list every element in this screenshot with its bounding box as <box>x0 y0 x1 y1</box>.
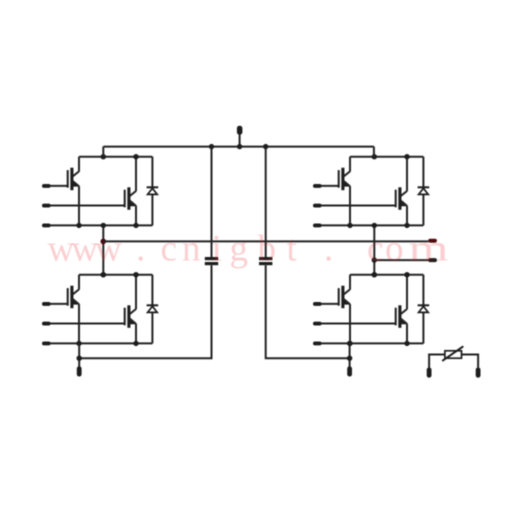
node DC+/pin junction <box>237 144 242 149</box>
IGBT half-bridge block U4 (bottom-right) <box>313 272 429 346</box>
node U2 emitter rail tap <box>372 223 377 228</box>
capacitor C1 top wire <box>211 147 213 257</box>
DC- left terminal pin <box>77 366 82 376</box>
thermistor right pin <box>476 368 481 378</box>
capacitor C2 <box>259 257 272 265</box>
DC- right terminal pin <box>347 366 352 376</box>
thermistor RT leads <box>429 355 478 368</box>
IGBT half-bridge block U3 (bottom-left) <box>42 272 158 346</box>
node DC- left / C1 junction <box>77 356 82 361</box>
AC2 terminal pin <box>428 258 437 262</box>
thermistor left pin <box>427 368 432 378</box>
AC2 output wire <box>374 259 428 261</box>
node U4 collector rail tap <box>372 272 377 277</box>
capacitor C2 bottom wire <box>266 265 350 358</box>
IGBT half-bridge block U1 (top-left) <box>42 154 158 228</box>
node DC+/C2 junction <box>263 144 268 149</box>
node AC2 tap <box>372 257 377 262</box>
jog DC+ to U2 collector rail <box>373 147 375 157</box>
phase-right vertical (U2 emitter to U4 collector) <box>373 225 375 274</box>
AC1 output rail <box>103 240 428 242</box>
thermistor RT slash <box>442 346 463 361</box>
node U3 collector rail tap <box>101 272 106 277</box>
capacitor C2 top wire <box>265 147 267 257</box>
node U4 emitter rail tap <box>347 341 352 346</box>
DC+ bus rail <box>103 146 374 148</box>
node AC1 tap (dark red) <box>101 239 107 245</box>
node DC+/C1 junction <box>209 144 214 149</box>
DC- right drop (U4 emitter to terminal) <box>349 343 351 366</box>
DC+ terminal pin <box>237 126 243 135</box>
node U1 emitter rail tap <box>101 223 106 228</box>
capacitor C1 <box>205 257 218 265</box>
wire pin to DC+ rail <box>239 135 241 147</box>
thermistor RT body <box>445 351 462 358</box>
AC1 terminal pin (dark red) <box>428 239 437 243</box>
capacitor C1 bottom wire <box>79 265 211 358</box>
jog DC+ to U1 collector rail <box>102 147 104 157</box>
phase-left vertical (U1 emitter to U3 collector) <box>102 225 104 274</box>
node DC- right / C2 junction <box>347 356 352 361</box>
svg-text:m: m <box>409 229 449 270</box>
IGBT half-bridge block U2 (top-right) <box>313 154 429 228</box>
DC- left drop (U3 emitter to terminal) <box>78 343 80 366</box>
